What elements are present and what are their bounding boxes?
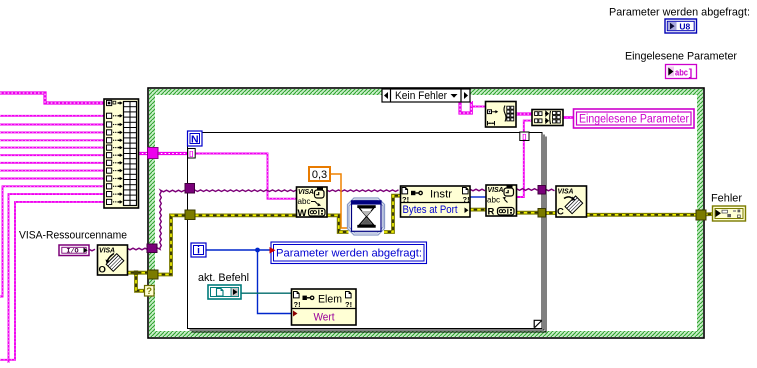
array subset node [486,102,517,128]
wire: indexed string from tunnel to VISA Write [195,154,297,199]
build array node (14 inputs) [104,99,139,208]
svg-text:Wert: Wert [314,311,335,323]
indicator: Eingelesene Parameter (in case) [574,109,695,128]
svg-text:C: C [557,207,564,218]
tunnel: error (For loop left) [185,210,195,220]
svg-text:Instr: Instr [430,189,452,201]
wire: error VISA Write to Wait [327,215,349,232]
wire: error to Fehler terminal [704,212,713,216]
svg-text:O: O [99,264,106,275]
VISA Close node [556,186,587,218]
wire: string row 10 [0,186,105,296]
label: Eingelesene Parameter [625,51,737,63]
wire: VISA resource VISA Read to For-loop right tunnel [517,189,538,191]
indicator terminal: Fehler (error cluster) [713,206,746,221]
case selector terminal [?] [145,286,155,298]
constant 0,3 [309,167,330,181]
wire: error property node to VISA Read [470,208,486,212]
wire: iteration i to local variable and Wert property [206,248,292,314]
svg-text:I/O: I/O [66,248,78,256]
label: Fehler [711,193,742,205]
svg-text:0,3: 0,3 [312,169,327,181]
tunnel: auto-index [] (For loop left) [188,149,196,159]
control terminal: akt. Befehl [208,285,241,299]
wire: string array into Build Array top input [0,93,105,103]
svg-text:U8: U8 [679,21,690,31]
build array 2 node [532,110,563,126]
svg-text:VISA: VISA [298,187,314,196]
svg-text:Fehler: Fehler [711,193,742,205]
wire: Array Subset to Build Array 2 [516,112,532,115]
wire: 0,3 to Wait (s) [330,174,349,228]
tunnel: VISA resource (For loop right) [538,186,546,195]
svg-text:abc: abc [298,197,311,206]
case structure border (Kein Fehler case) [148,88,704,338]
svg-text:Eingelesene Parameter: Eingelesene Parameter [579,114,689,126]
svg-text:Bytes at Port: Bytes at Port [403,204,458,216]
tunnel: error (case left) [148,270,159,279]
property node Bytes at Port [401,186,471,217]
indicator terminal: U8 (Parameter werden abgefragt:) [665,19,697,33]
label: VISA-Ressourcenname [19,230,127,242]
wire: error tunnel to VISA Close [546,211,557,215]
svg-text:abc: abc [487,195,500,204]
svg-text:?!: ?! [402,195,409,204]
svg-text:VISA: VISA [99,246,115,255]
wire: array into Array Subset (routed under selector label) [460,101,486,113]
local variable: Parameter werden abgefragt [270,242,427,264]
wire: error VISA Read to For-loop right tunnel [517,211,539,215]
svg-text:i: i [197,245,200,256]
tunnel: error (case right) [696,210,706,220]
wire: string row 11 [9,194,105,363]
wire: VISA resource inside case up to For loop [157,190,185,249]
svg-text:Parameter werden abgefragt:: Parameter werden abgefragt: [609,7,750,19]
svg-text:Eingelesene Parameter: Eingelesene Parameter [625,51,737,63]
svg-text:akt. Befehl: akt. Befehl [198,272,249,284]
svg-text:W: W [298,208,307,219]
wire: VISA Open to case tunnel [127,248,148,250]
tunnel: VISA resource (For loop left) [185,184,195,194]
tunnel: error (For loop right) [538,209,546,218]
wire: VISA resource I/O to VISA Open [89,249,95,251]
wire: Build Array 2 to Eingelesene Parameter [563,116,574,119]
svg-text:R: R [488,206,495,217]
wire: string row 12 [0,202,105,360]
indicator terminal: [abc] (Eingelesene Parameter) [666,65,697,80]
VISA Open node [98,245,128,275]
label: akt. Befehl [198,272,249,284]
VISA Read node [486,185,517,217]
wire: VISA Read data up to Build Array 2 [517,121,533,197]
svg-text:?!: ?! [294,300,301,309]
label: Parameter werden abgefragt: [609,7,750,19]
svg-text:abc: abc [675,67,688,77]
svg-text:?: ? [146,286,152,297]
wire: VISA resource tunnel to VISA Close [546,189,555,191]
tunnel: VISA resource (case left) [147,244,157,253]
wire: akt. Befehl reference to property node [241,292,292,294]
property node Elem / Wert [292,289,357,325]
wire: VISA resource property node to VISA Read [470,189,485,191]
wire: error VISA Close to case tunnel [586,213,706,217]
wire: error Wait to property node [384,196,401,232]
svg-text:]: ] [689,67,693,79]
wire: Build Array output to case tunnel and For-loop tunnel [138,152,188,155]
svg-text:VISA: VISA [558,186,574,195]
wire: Bytes at Port count to VISA Read [470,196,486,198]
svg-text:[]: [] [522,135,526,141]
for loop border [188,133,547,333]
svg-text:[]: [] [189,152,193,158]
svg-text:?!: ?! [345,300,352,309]
svg-text:Elem: Elem [318,293,342,305]
tunnel: string array (case left) [148,148,159,159]
control terminal: VISA-Ressourcenname (I/O) [59,245,89,256]
svg-text:Parameter werden abgefragt:: Parameter werden abgefragt: [276,248,422,260]
tunnel: auto-index [] (For loop top right) [520,132,529,141]
wire: error For tunnel to VISA Write [195,213,297,217]
for loop folded corner [534,320,541,327]
wire: string constants into Build Array (rows 1-9) [0,116,105,179]
svg-text:N: N [191,133,199,145]
svg-text:Kein Fehler: Kein Fehler [395,90,447,102]
svg-text:?!: ?! [463,195,470,204]
wire: error case tunnel to For loop [158,215,186,274]
svg-text:VISA: VISA [488,185,504,194]
wire: error out of VISA Open with branch to case selector [127,271,148,291]
for loop count terminal N [188,131,203,146]
VISA Write node [297,187,328,219]
case selector label Kein Fehler [382,89,470,102]
for loop iteration terminal i [191,243,206,257]
wait (s) function [348,198,385,235]
wire: VISA resource For-loop tunnel to VISA Write / property node [195,190,399,192]
svg-text:VISA-Ressourcenname: VISA-Ressourcenname [19,230,127,242]
